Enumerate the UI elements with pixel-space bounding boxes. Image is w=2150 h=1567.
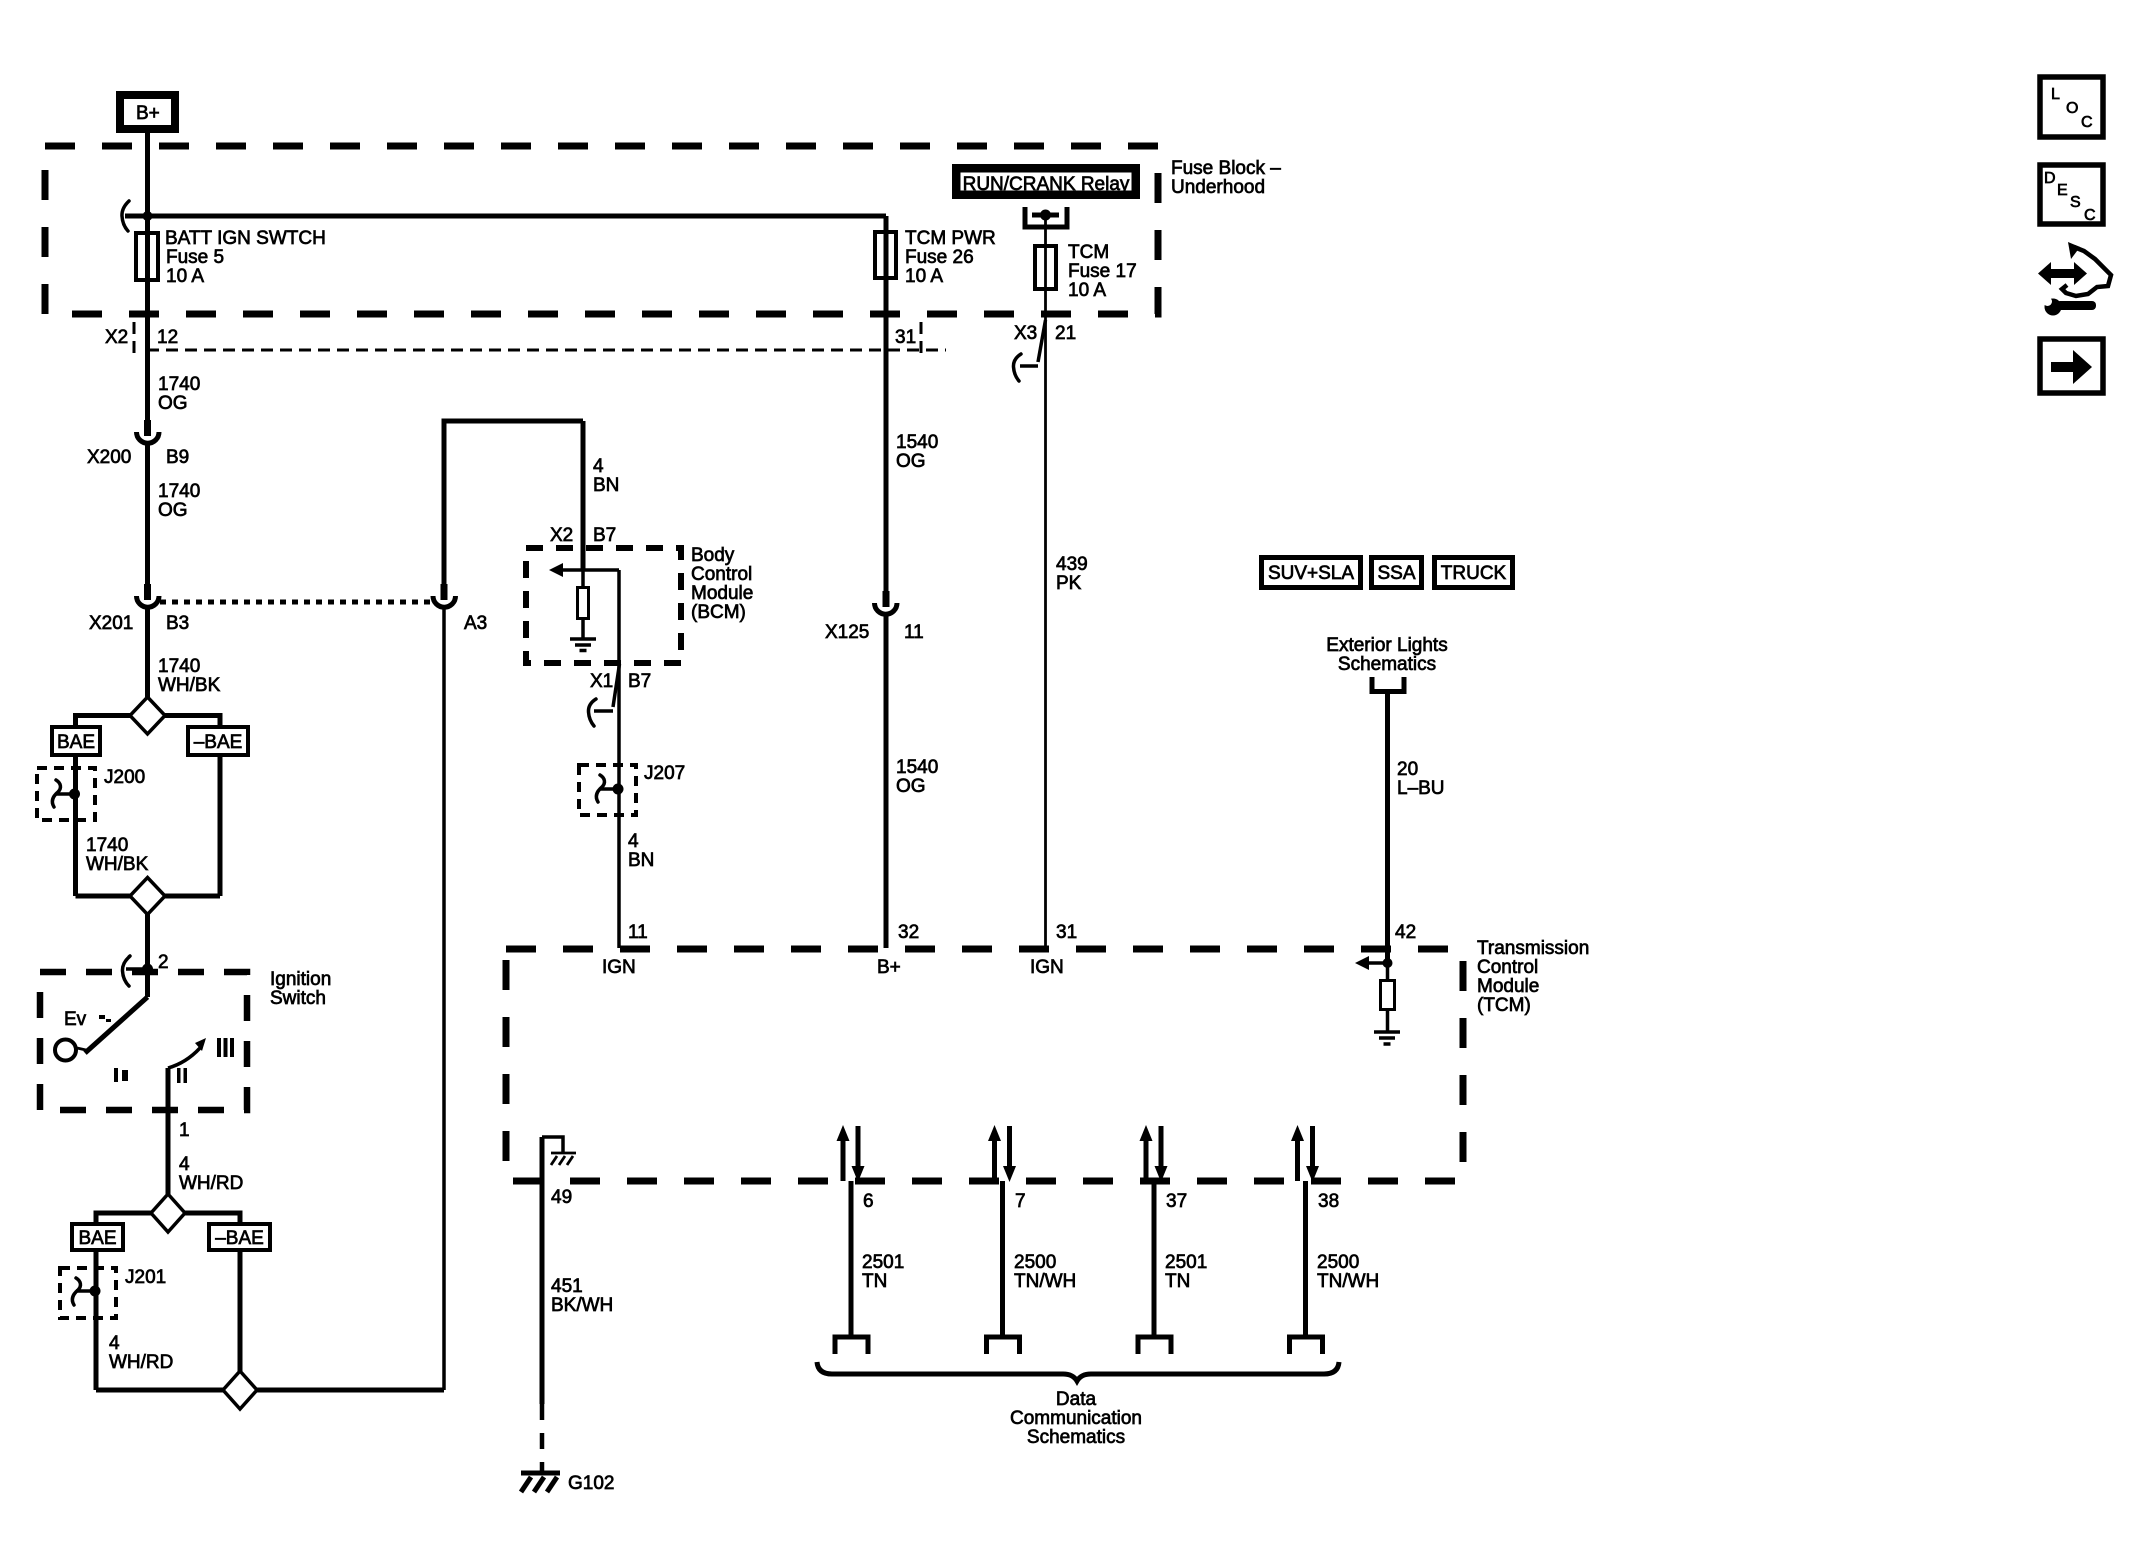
svg-text:B+: B+: [136, 103, 160, 124]
svg-text:11: 11: [904, 622, 924, 643]
svg-text:37: 37: [1166, 1191, 1187, 1212]
svg-text:Schematics: Schematics: [1338, 654, 1436, 675]
svg-text:X200: X200: [87, 447, 131, 468]
svg-text:2500: 2500: [1317, 1252, 1359, 1273]
svg-text:2500: 2500: [1014, 1252, 1056, 1273]
svg-text:38: 38: [1318, 1191, 1339, 1212]
svg-text:TCM PWR: TCM PWR: [905, 228, 996, 249]
svg-text:BN: BN: [628, 850, 654, 871]
svg-text:4: 4: [179, 1154, 190, 1175]
svg-text:WH/BK: WH/BK: [158, 675, 221, 696]
svg-text:OG: OG: [158, 500, 188, 521]
svg-text:439: 439: [1056, 554, 1088, 575]
svg-text:Control: Control: [691, 564, 752, 585]
svg-text:1740: 1740: [158, 374, 200, 395]
svg-text:C: C: [2081, 114, 2093, 131]
svg-text:10 A: 10 A: [166, 266, 204, 287]
svg-text:X125: X125: [825, 622, 869, 643]
svg-text:4: 4: [628, 831, 639, 852]
svg-text:TN: TN: [1165, 1271, 1190, 1292]
svg-text:20: 20: [1397, 759, 1418, 780]
svg-text:31: 31: [1056, 922, 1077, 943]
svg-text:B+: B+: [877, 957, 901, 978]
svg-text:X201: X201: [89, 613, 133, 634]
svg-text:WH/BK: WH/BK: [86, 854, 149, 875]
svg-text:–BAE: –BAE: [215, 1228, 264, 1249]
svg-text:1540: 1540: [896, 432, 938, 453]
svg-text:7: 7: [1015, 1191, 1026, 1212]
svg-text:2501: 2501: [862, 1252, 904, 1273]
svg-text:Fuse 17: Fuse 17: [1068, 261, 1137, 282]
svg-text:–BAE: –BAE: [194, 732, 243, 753]
svg-text:1: 1: [179, 1120, 190, 1141]
svg-text:J200: J200: [104, 767, 145, 788]
svg-text:Control: Control: [1477, 957, 1538, 978]
svg-text:RUN/CRANK Relay: RUN/CRANK Relay: [963, 174, 1130, 195]
svg-text:TN/WH: TN/WH: [1317, 1271, 1379, 1292]
svg-text:Fuse Block –: Fuse Block –: [1171, 158, 1281, 179]
svg-text:Fuse 26: Fuse 26: [905, 247, 974, 268]
svg-text:Switch: Switch: [270, 988, 326, 1009]
svg-text:OG: OG: [158, 393, 188, 414]
svg-text:1740: 1740: [86, 835, 128, 856]
svg-text:21: 21: [1055, 323, 1076, 344]
svg-text:11: 11: [628, 922, 648, 943]
svg-text:451: 451: [551, 1276, 583, 1297]
svg-text:1740: 1740: [158, 481, 200, 502]
svg-text:BAE: BAE: [78, 1228, 116, 1249]
svg-text:B7: B7: [628, 671, 651, 692]
svg-text:B3: B3: [166, 613, 189, 634]
svg-text:BAE: BAE: [57, 732, 95, 753]
svg-text:(BCM): (BCM): [691, 602, 746, 623]
svg-text:Fuse 5: Fuse 5: [166, 247, 224, 268]
svg-text:1740: 1740: [158, 656, 200, 677]
svg-text:IGN: IGN: [1030, 957, 1064, 978]
svg-text:4: 4: [109, 1333, 120, 1354]
svg-text:Schematics: Schematics: [1027, 1427, 1125, 1448]
svg-text:O: O: [2066, 100, 2078, 117]
svg-text:B9: B9: [166, 447, 189, 468]
svg-text:X2: X2: [105, 327, 128, 348]
svg-text:Body: Body: [691, 545, 735, 566]
svg-text:10 A: 10 A: [1068, 280, 1106, 301]
svg-text:49: 49: [551, 1187, 572, 1208]
svg-text:12: 12: [157, 327, 178, 348]
svg-text:Ignition: Ignition: [270, 969, 331, 990]
svg-text:OG: OG: [896, 451, 926, 472]
svg-text:42: 42: [1395, 922, 1416, 943]
svg-text:S: S: [2070, 194, 2081, 211]
svg-text:TN/WH: TN/WH: [1014, 1271, 1076, 1292]
svg-text:TN: TN: [862, 1271, 887, 1292]
svg-text:B7: B7: [593, 525, 616, 546]
svg-text:X3: X3: [1014, 323, 1037, 344]
svg-text:C: C: [2084, 207, 2096, 224]
svg-text:J201: J201: [125, 1267, 166, 1288]
svg-text:1540: 1540: [896, 757, 938, 778]
svg-text:L: L: [2051, 86, 2060, 103]
svg-text:Ev: Ev: [64, 1009, 87, 1030]
svg-text:L–BU: L–BU: [1397, 778, 1445, 799]
svg-text:BATT IGN SWTCH: BATT IGN SWTCH: [165, 228, 326, 249]
svg-text:X2: X2: [550, 525, 573, 546]
svg-text:31: 31: [895, 327, 916, 348]
svg-text:6: 6: [863, 1191, 874, 1212]
svg-text:SSA: SSA: [1377, 563, 1415, 584]
svg-text:2: 2: [158, 952, 169, 973]
svg-text:Transmission: Transmission: [1477, 938, 1589, 959]
svg-text:4: 4: [593, 456, 604, 477]
svg-text:E: E: [2057, 182, 2068, 199]
svg-text:2501: 2501: [1165, 1252, 1207, 1273]
svg-text:WH/RD: WH/RD: [179, 1173, 243, 1194]
svg-text:X1: X1: [590, 671, 613, 692]
svg-text:Exterior Lights: Exterior Lights: [1326, 635, 1447, 656]
svg-text:Underhood: Underhood: [1171, 177, 1265, 198]
svg-text:10 A: 10 A: [905, 266, 943, 287]
svg-text:TCM: TCM: [1068, 242, 1109, 263]
svg-text:Module: Module: [691, 583, 753, 604]
svg-text:A3: A3: [464, 613, 487, 634]
svg-text:Communication: Communication: [1010, 1408, 1142, 1429]
svg-text:TRUCK: TRUCK: [1441, 563, 1507, 584]
svg-text:BK/WH: BK/WH: [551, 1295, 613, 1316]
svg-text:SUV+SLA: SUV+SLA: [1268, 563, 1354, 584]
svg-text:(TCM): (TCM): [1477, 995, 1531, 1016]
svg-text:G102: G102: [568, 1473, 614, 1494]
svg-text:D: D: [2044, 170, 2056, 187]
svg-text:BN: BN: [593, 475, 619, 496]
svg-text:J207: J207: [644, 763, 685, 784]
svg-text:Data: Data: [1056, 1389, 1097, 1410]
svg-text:WH/RD: WH/RD: [109, 1352, 173, 1373]
svg-text:Module: Module: [1477, 976, 1539, 997]
svg-text:IGN: IGN: [602, 957, 636, 978]
svg-text:OG: OG: [896, 776, 926, 797]
svg-text:PK: PK: [1056, 573, 1082, 594]
svg-text:32: 32: [898, 922, 919, 943]
